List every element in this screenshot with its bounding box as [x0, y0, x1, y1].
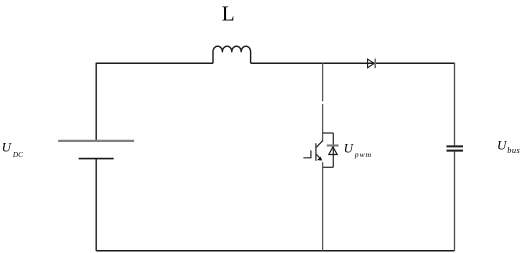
transistor Q1 emitter arrowhead — [317, 157, 322, 161]
wire right vertical lower — [454, 152, 456, 251]
diode D2 cathode bar — [327, 144, 339, 146]
diode D2 triangle — [329, 147, 337, 155]
wire middle vertical upper — [322, 63, 324, 141]
wire top-middle horizontal — [251, 62, 455, 64]
capacitor C bottom plate — [447, 150, 464, 152]
wire left vertical upper — [95, 63, 97, 141]
wire right vertical upper — [454, 63, 456, 146]
svg-text:pwm: pwm — [354, 150, 372, 159]
svg-text:U: U — [2, 140, 13, 155]
wire IGBT cell top horizontal — [323, 132, 334, 134]
transistor Q1 channel bar — [315, 143, 317, 161]
svg-text:L: L — [222, 2, 235, 26]
battery negative short plate — [79, 158, 114, 160]
wire top-left horizontal — [96, 62, 213, 64]
transistor Q1 emitter diagonal — [316, 154, 320, 158]
capacitor C top plate — [447, 145, 464, 147]
wire middle vertical lower — [322, 162, 324, 251]
svg-text:DC: DC — [12, 151, 23, 159]
transistor Q1 collector diagonal — [316, 140, 323, 147]
svg-text:bus: bus — [507, 146, 520, 155]
inductor L — [213, 46, 251, 63]
wire left vertical lower — [95, 159, 97, 251]
diode D1 triangle — [368, 59, 375, 68]
diode D1 cathode bar — [374, 59, 376, 69]
wire bottom horizontal — [96, 250, 454, 252]
transistor Q1 gate lead — [303, 150, 311, 157]
battery positive long plate — [58, 140, 134, 142]
wire IGBT cell bottom horizontal — [323, 166, 334, 168]
wire IGBT cell right vertical — [332, 133, 334, 167]
svg-text:U: U — [344, 141, 355, 156]
